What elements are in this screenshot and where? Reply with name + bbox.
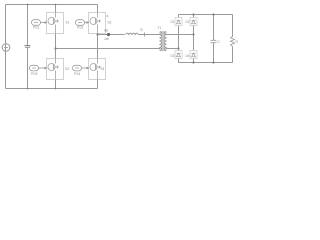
- svg-text:PG2: PG2: [77, 26, 84, 30]
- svg-text:ip: ip: [141, 28, 144, 32]
- svg-text:PG1: PG1: [33, 26, 40, 30]
- svg-text:PG4: PG4: [74, 72, 81, 76]
- svg-text:D2: D2: [186, 20, 190, 24]
- svg-text:S1: S1: [66, 21, 70, 25]
- svg-text:R: R: [236, 40, 239, 44]
- svg-text:S2: S2: [108, 21, 112, 25]
- svg-text:D4: D4: [186, 54, 190, 58]
- svg-text:D1: D1: [171, 20, 175, 24]
- svg-text:S3: S3: [65, 67, 69, 71]
- svg-text:a: a: [107, 14, 109, 18]
- svg-text:C: C: [218, 40, 221, 44]
- svg-text:S4: S4: [101, 67, 105, 71]
- svg-text:PG3: PG3: [31, 72, 38, 76]
- svg-text:D3: D3: [171, 54, 175, 58]
- svg-text:iab: iab: [104, 29, 108, 33]
- svg-text:T1: T1: [158, 26, 162, 30]
- svg-text:Iab: Iab: [105, 37, 110, 41]
